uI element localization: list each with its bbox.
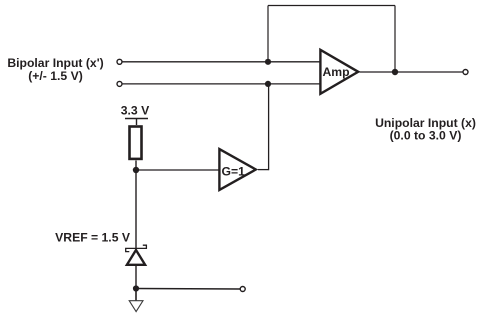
wire buffer output riser	[268, 84, 270, 171]
junction node reference	[133, 167, 139, 173]
power rail 3.3V bar	[125, 118, 148, 120]
buffer U2 "G=1"	[219, 149, 255, 190]
junction node amp output	[392, 69, 398, 75]
svg-text:(0.0 to 3.0 V): (0.0 to 3.0 V)	[390, 128, 462, 142]
junction node ground	[133, 285, 139, 291]
terminal T2 bipolar input lower	[117, 81, 122, 86]
svg-text:(+/- 1.5 V): (+/- 1.5 V)	[28, 69, 83, 83]
zener diode D1	[126, 245, 147, 265]
terminal T1 bipolar input upper	[117, 59, 122, 64]
wire lower input line	[122, 83, 321, 85]
svg-text:G=1: G=1	[222, 165, 246, 179]
svg-text:VREF = 1.5 V: VREF = 1.5 V	[55, 230, 131, 244]
junction node on upper input line	[265, 59, 271, 65]
wire upper input line	[122, 61, 321, 63]
terminal T4	[240, 287, 245, 292]
resistor R1	[130, 127, 142, 159]
wire feedback top	[268, 5, 395, 7]
wire ground stub	[135, 289, 137, 302]
wire buffer output	[258, 169, 269, 171]
terminal T3 unipolar output	[463, 70, 468, 75]
wire amp output	[360, 71, 464, 73]
op-amp U1 "Amp"	[320, 50, 358, 94]
wire power stub	[136, 119, 138, 126]
wire resistor to node	[135, 161, 137, 171]
wire node down to zener	[135, 170, 137, 250]
ground	[129, 301, 143, 312]
wire feedback right riser	[394, 6, 396, 73]
junction node on lower input line	[265, 81, 271, 87]
svg-text:3.3 V: 3.3 V	[121, 104, 150, 118]
wire ground node to terminal	[136, 288, 240, 291]
svg-text:Amp: Amp	[323, 65, 350, 79]
wire node to buffer input	[136, 169, 219, 171]
wire feedback left riser	[267, 6, 269, 62]
wire zener to ground node	[135, 266, 137, 289]
